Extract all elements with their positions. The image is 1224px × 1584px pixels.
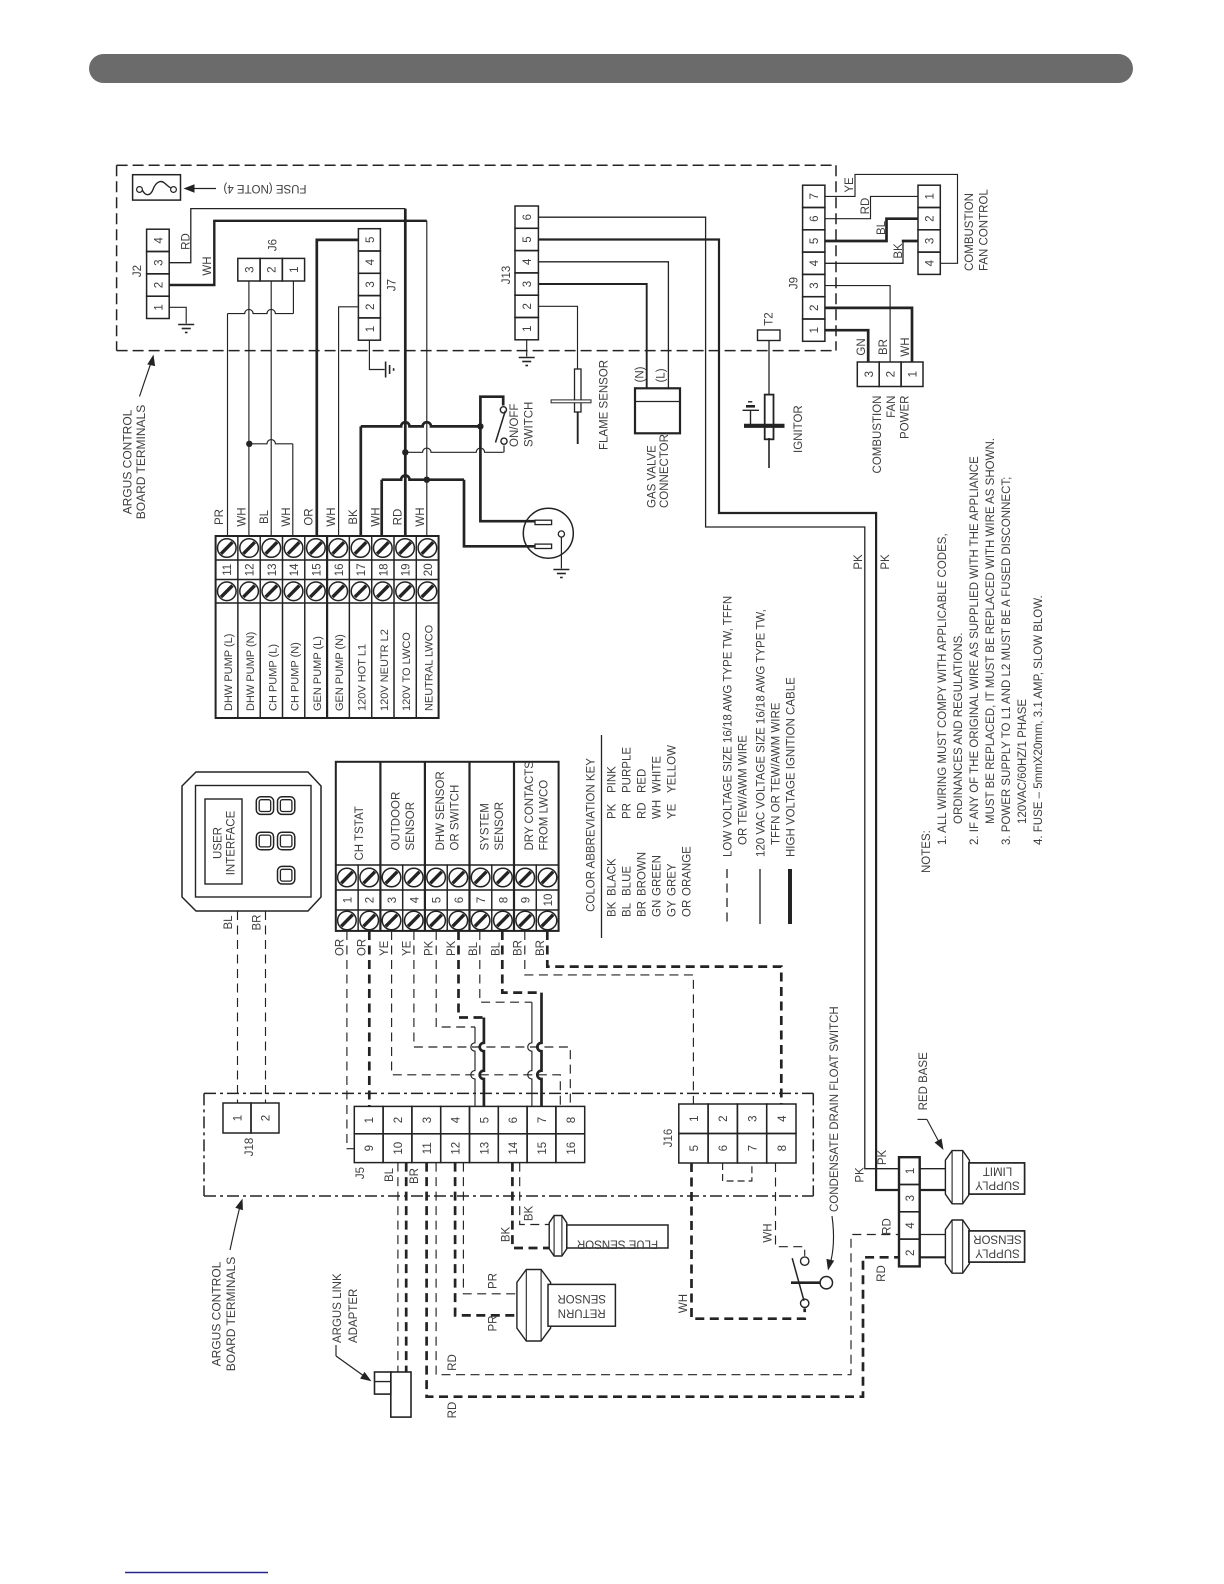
svg-text:1: 1 xyxy=(522,325,534,331)
wire J2.2 WH xyxy=(169,221,427,285)
svg-text:BROWN: BROWN xyxy=(637,852,649,896)
svg-text:6: 6 xyxy=(522,214,534,220)
svg-text:7: 7 xyxy=(537,1117,549,1123)
svg-text:RD: RD xyxy=(860,198,872,215)
wire J13.3 to gas valve (N) xyxy=(538,284,646,388)
svg-text:GY: GY xyxy=(667,900,679,917)
svg-text:T2: T2 xyxy=(764,312,776,325)
svg-text:RD: RD xyxy=(876,1265,888,1282)
supply sensor xyxy=(945,1220,969,1273)
wire UI BR to J18.2 xyxy=(265,911,267,1103)
connector J13 xyxy=(515,206,538,228)
svg-text:120V TO LWCO: 120V TO LWCO xyxy=(401,632,413,711)
svg-text:17: 17 xyxy=(356,563,368,576)
ignitor tip wire xyxy=(768,438,770,468)
wire J7.1 to ground xyxy=(369,340,384,369)
svg-text:3. POWER SUPPLY TO L1 AND L2: 3. POWER SUPPLY TO L1 AND L2 MUST BE A F… xyxy=(1001,477,1013,845)
wire terminal 17 BK to on/off switch feed xyxy=(359,426,362,536)
color key underline xyxy=(601,735,603,938)
footer link line xyxy=(125,1572,268,1574)
connector J5 xyxy=(354,1106,383,1133)
svg-text:3: 3 xyxy=(925,238,937,244)
svg-text:6: 6 xyxy=(718,1145,730,1151)
svg-text:BK: BK xyxy=(348,509,360,525)
ignitor electrode body xyxy=(765,395,774,440)
condensate float switch arm xyxy=(791,1281,820,1284)
plug ground symbol xyxy=(553,569,569,571)
supply sensor label box xyxy=(969,1231,1025,1262)
wire red base pin 2 to supply sensor xyxy=(920,1256,946,1258)
svg-text:OR: OR xyxy=(682,900,694,917)
svg-text:SENSOR: SENSOR xyxy=(405,802,417,851)
svg-text:ARGUS LINK: ARGUS LINK xyxy=(332,1273,344,1343)
svg-text:2: 2 xyxy=(153,282,165,288)
wire T2 to ignitor xyxy=(768,341,770,396)
svg-text:PK: PK xyxy=(424,940,436,956)
flue sensor xyxy=(549,1216,567,1257)
svg-text:2. IF ANY OF THE ORIGINAL WIR: 2. IF ANY OF THE ORIGINAL WIRE AS SUPPLI… xyxy=(969,456,981,845)
svg-text:13: 13 xyxy=(267,563,279,576)
svg-text:5: 5 xyxy=(365,237,377,243)
svg-text:4: 4 xyxy=(905,1222,917,1229)
svg-text:BK: BK xyxy=(524,1206,536,1222)
argus link adapter xyxy=(391,1372,411,1417)
ignitor spark gap electrode xyxy=(750,410,752,426)
svg-text:COLOR ABBREVIATION KEY: COLOR ABBREVIATION KEY xyxy=(586,758,598,912)
svg-text:PK: PK xyxy=(607,803,619,819)
svg-text:2: 2 xyxy=(267,266,279,272)
svg-text:BLUE: BLUE xyxy=(622,866,634,896)
wire J6.3 to terminal 12 (WH) xyxy=(248,281,250,536)
svg-text:3: 3 xyxy=(522,281,534,287)
svg-text:ON/OFF: ON/OFF xyxy=(509,404,521,447)
svg-text:3: 3 xyxy=(905,1195,917,1201)
wire J16.8 WH to float switch top xyxy=(776,1163,805,1256)
svg-text:J16: J16 xyxy=(663,1129,675,1148)
svg-text:5: 5 xyxy=(479,1117,491,1123)
svg-text:CONNECTOR: CONNECTOR xyxy=(659,434,671,508)
svg-text:BK: BK xyxy=(607,901,619,917)
svg-text:SENSOR: SENSOR xyxy=(494,802,506,851)
svg-text:PK: PK xyxy=(877,1150,889,1166)
svg-text:BR: BR xyxy=(637,901,649,917)
on/off switch xyxy=(480,397,503,427)
svg-text:19: 19 xyxy=(401,563,413,576)
svg-text:J18: J18 xyxy=(244,1138,256,1157)
svg-text:FLAME SENSOR: FLAME SENSOR xyxy=(599,360,611,450)
wire J5.10 BR to argus link adapter (offset) xyxy=(405,1163,408,1372)
svg-text:BK: BK xyxy=(893,243,905,259)
svg-text:SYSTEM: SYSTEM xyxy=(480,803,492,850)
svg-text:J6: J6 xyxy=(268,239,280,251)
wire J5.11 RD to red base pin 2 xyxy=(427,1163,899,1397)
svg-text:1: 1 xyxy=(905,1168,917,1174)
flame sensor body xyxy=(575,369,582,412)
svg-text:1: 1 xyxy=(689,1115,701,1121)
wire red base pin 1 to supply limit xyxy=(920,1168,946,1170)
svg-text:ORANGE: ORANGE xyxy=(682,846,694,896)
svg-text:J2: J2 xyxy=(132,265,144,277)
svg-text:1: 1 xyxy=(233,1115,245,1121)
svg-text:WH: WH xyxy=(415,507,427,526)
svg-text:GN: GN xyxy=(856,338,868,355)
wire J13.6 PK long run to supply limit pin 1 xyxy=(538,217,899,1168)
svg-text:2: 2 xyxy=(365,897,377,903)
svg-text:RD: RD xyxy=(393,509,405,526)
svg-text:TFFN OR TEW/AWM WIRE: TFFN OR TEW/AWM WIRE xyxy=(771,702,783,845)
svg-text:PR: PR xyxy=(488,1316,500,1332)
junction dot term20 neutral xyxy=(424,477,430,483)
wire J9.7 YE to fan control pin 4 xyxy=(825,174,958,263)
wire terminal 7 BL drop to J5.7 (offset) xyxy=(528,1002,532,1106)
svg-text:2: 2 xyxy=(809,305,821,311)
wire J2.3 RD xyxy=(169,209,405,263)
wire terminal 19 RD riser (from J2.3) xyxy=(404,209,407,536)
svg-text:IGNITOR: IGNITOR xyxy=(793,405,805,453)
svg-text:SENSOR: SENSOR xyxy=(557,1292,606,1304)
legend solid wire sample xyxy=(759,869,761,924)
svg-text:3: 3 xyxy=(244,266,256,272)
svg-text:CH TSTAT: CH TSTAT xyxy=(354,806,366,860)
svg-text:DHW SENSOR: DHW SENSOR xyxy=(435,771,447,850)
wire J6.2 to terminal 13 (BL) xyxy=(270,281,272,536)
junction dot term19/switch return xyxy=(402,449,408,455)
wire terminal 5 PK drop to J5.5 (offset) xyxy=(471,1027,475,1106)
svg-text:5: 5 xyxy=(522,236,534,242)
svg-text:COMBUSTION: COMBUSTION xyxy=(964,193,976,271)
supply limit label box xyxy=(969,1163,1025,1194)
ground at J2.1 xyxy=(178,324,194,326)
svg-text:YE: YE xyxy=(844,177,856,193)
terminal screws bottom row 1-10 xyxy=(338,911,357,930)
svg-text:RD: RD xyxy=(882,1218,894,1235)
svg-text:LIMIT: LIMIT xyxy=(983,1165,1012,1177)
transformer T2 xyxy=(758,330,781,341)
svg-text:120VAC/60HZ/1 PHASE: 120VAC/60HZ/1 PHASE xyxy=(1017,699,1029,824)
svg-text:PINK: PINK xyxy=(607,766,619,793)
legend thick wire sample xyxy=(788,869,792,924)
svg-text:J13: J13 xyxy=(501,266,513,285)
svg-text:6: 6 xyxy=(809,215,821,221)
svg-text:RED BASE: RED BASE xyxy=(918,1052,930,1110)
svg-text:RD: RD xyxy=(181,233,193,250)
leader arrow to red base xyxy=(918,1118,927,1120)
svg-text:INTERFACE: INTERFACE xyxy=(226,810,238,875)
dashed enclosure: argus control board terminals (top) xyxy=(117,164,836,166)
svg-text:BLACK: BLACK xyxy=(607,858,619,896)
connector J16 xyxy=(679,1104,708,1134)
svg-text:4: 4 xyxy=(522,258,534,265)
svg-text:BR: BR xyxy=(409,1168,421,1184)
svg-text:3: 3 xyxy=(422,1117,434,1123)
svg-text:5: 5 xyxy=(689,1145,701,1151)
svg-text:BR: BR xyxy=(535,940,547,956)
wire terminal 4 YE to J5.8 xyxy=(414,931,570,1106)
svg-text:8: 8 xyxy=(566,1117,578,1123)
wire terminal 3 YE to J5.8 (offset) xyxy=(392,931,561,1106)
svg-text:PR: PR xyxy=(488,1273,500,1289)
svg-text:FAN: FAN xyxy=(886,396,898,418)
svg-text:3: 3 xyxy=(809,282,821,288)
wire J9.1 GN to fan power 3 xyxy=(825,330,868,362)
wire J5.13 BK to flue sensor (offset) xyxy=(520,1163,550,1225)
svg-text:12: 12 xyxy=(245,563,257,576)
svg-text:120 VAC VOLTAGE SIZE 16/18 AWG: 120 VAC VOLTAGE SIZE 16/18 AWG TYPE TW, xyxy=(756,609,768,857)
svg-text:WH: WH xyxy=(202,256,214,275)
svg-text:WH: WH xyxy=(678,1294,690,1313)
svg-text:BR: BR xyxy=(252,915,264,931)
wire terminal 20 WH riser (from J2.2) xyxy=(426,221,428,536)
terminal screws top row 11-20 xyxy=(218,539,237,558)
svg-text:GN: GN xyxy=(652,900,664,917)
fuse note arrow xyxy=(184,184,195,192)
svg-text:NOTES:: NOTES: xyxy=(921,830,933,873)
legend dashed wire sample xyxy=(726,869,728,924)
svg-text:1: 1 xyxy=(365,326,377,332)
svg-text:10: 10 xyxy=(393,1142,405,1155)
wire J13.5 PK long run to supply limit pin 3 xyxy=(538,240,899,1191)
jumper J16.6-J16.7 xyxy=(723,1163,752,1181)
condensate float switch contacts xyxy=(801,1257,809,1265)
svg-text:BL: BL xyxy=(259,509,271,524)
svg-text:BL: BL xyxy=(384,1167,396,1182)
svg-text:BR: BR xyxy=(878,339,890,355)
svg-text:3: 3 xyxy=(153,259,165,265)
svg-text:COMBUSTION: COMBUSTION xyxy=(872,396,884,474)
wire J2.1 to ground xyxy=(169,307,186,323)
connector: red base xyxy=(899,1157,920,1184)
svg-text:FROM LWCO: FROM LWCO xyxy=(539,780,551,851)
terminal screws bottom row 11-20 xyxy=(218,582,237,601)
svg-text:OR: OR xyxy=(357,939,369,956)
wire terminal 6 PK drop to J5.5 xyxy=(480,1018,484,1107)
svg-text:1: 1 xyxy=(925,193,937,199)
supply limit sensor xyxy=(945,1151,969,1204)
connector J2 xyxy=(147,229,170,251)
svg-text:1: 1 xyxy=(342,897,354,903)
svg-text:PK: PK xyxy=(855,1167,867,1183)
svg-text:7: 7 xyxy=(748,1145,760,1151)
svg-text:3: 3 xyxy=(387,897,399,903)
wire terminal 1 OR to J5.9 xyxy=(347,931,354,1149)
svg-text:RETURN: RETURN xyxy=(558,1307,606,1319)
svg-text:BOARD TERMINALS: BOARD TERMINALS xyxy=(134,405,148,519)
svg-text:120V NEUTR L2: 120V NEUTR L2 xyxy=(379,629,391,711)
svg-text:ORDINANCES AND REGULATIONS.: ORDINANCES AND REGULATIONS. xyxy=(953,633,965,825)
wire J7.5 to terminal 15 (OR) xyxy=(317,240,359,536)
svg-text:7: 7 xyxy=(809,193,821,199)
svg-text:4: 4 xyxy=(409,896,421,903)
svg-text:11: 11 xyxy=(422,1142,434,1154)
connector: combustion fan power xyxy=(857,362,879,387)
ground at J13.1 xyxy=(519,357,535,359)
svg-text:(L): (L) xyxy=(656,368,668,382)
svg-text:SUPPLY: SUPPLY xyxy=(975,1179,1020,1191)
svg-text:FUSE (NOTE 4): FUSE (NOTE 4) xyxy=(223,182,306,194)
wire J9.2 WH to fan power 1 xyxy=(825,308,912,362)
wire J9.6 RD to fan control pin 1 xyxy=(825,196,918,218)
wire terminal 8 BL drop to J5.7 xyxy=(537,993,541,1107)
svg-text:PK: PK xyxy=(446,940,458,956)
svg-text:2: 2 xyxy=(905,1250,917,1256)
svg-text:YE: YE xyxy=(379,940,391,956)
svg-text:BK: BK xyxy=(501,1227,513,1243)
svg-text:OUTDOOR: OUTDOOR xyxy=(390,792,402,851)
connector J18 xyxy=(223,1103,251,1133)
wire J5.11 RD to red base pin 4 (offset) xyxy=(436,1163,899,1375)
flame sensor rod xyxy=(577,412,579,444)
svg-text:5: 5 xyxy=(809,238,821,244)
wire terminal 7 BL jog xyxy=(480,931,532,1002)
svg-text:SWITCH: SWITCH xyxy=(524,402,536,447)
svg-text:GREY: GREY xyxy=(667,863,679,896)
connector J6 xyxy=(238,258,260,281)
svg-text:YELLOW: YELLOW xyxy=(667,745,679,793)
leader arrow to argus link adapter xyxy=(335,1345,337,1356)
svg-text:4: 4 xyxy=(777,1115,789,1122)
svg-text:ARGUS CONTROL: ARGUS CONTROL xyxy=(210,1261,224,1366)
svg-text:14: 14 xyxy=(508,1141,520,1154)
svg-text:4. FUSE – 5mmX20mm, 3.1 AMP,: 4. FUSE – 5mmX20mm, 3.1 AMP, SLOW BLOW. xyxy=(1033,595,1045,845)
svg-text:SENSOR: SENSOR xyxy=(973,1233,1022,1245)
svg-text:4: 4 xyxy=(451,1116,463,1123)
wire switch hot to plug xyxy=(480,426,535,521)
svg-text:18: 18 xyxy=(378,563,390,576)
svg-text:GAS VALVE: GAS VALVE xyxy=(647,445,659,508)
gas valve connector box xyxy=(635,388,680,433)
svg-text:2: 2 xyxy=(886,371,898,377)
leader arrow to top dashed box xyxy=(140,360,153,397)
terminal screws top row 1-10 xyxy=(338,868,357,887)
svg-text:1: 1 xyxy=(153,304,165,310)
svg-text:15: 15 xyxy=(311,563,323,576)
svg-text:OR SWITCH: OR SWITCH xyxy=(449,785,461,851)
svg-text:3: 3 xyxy=(365,281,377,287)
svg-text:BL: BL xyxy=(876,220,888,235)
svg-text:2: 2 xyxy=(718,1115,730,1121)
svg-text:WH: WH xyxy=(281,507,293,526)
svg-text:POWER: POWER xyxy=(900,396,912,439)
ignitor mounting bar xyxy=(744,424,785,428)
svg-text:20: 20 xyxy=(423,563,435,576)
svg-text:OR TEW/AWM WIRE: OR TEW/AWM WIRE xyxy=(738,735,750,845)
svg-text:7: 7 xyxy=(476,897,488,903)
svg-text:RD: RD xyxy=(637,802,649,819)
svg-text:CH PUMP (N): CH PUMP (N) xyxy=(290,642,302,711)
wire J5.12 PR to return sensor (offset) xyxy=(463,1163,517,1294)
svg-text:ADAPTER: ADAPTER xyxy=(348,1289,360,1343)
wire J5.13 BK to flue sensor xyxy=(512,1163,549,1248)
svg-text:6: 6 xyxy=(454,897,466,903)
connector: combustion fan control xyxy=(918,185,940,207)
junction dot switch feed xyxy=(477,423,483,429)
wire UI BL to J18.1 xyxy=(237,911,239,1103)
svg-text:1: 1 xyxy=(908,371,920,377)
svg-text:GREEN: GREEN xyxy=(652,855,664,896)
svg-text:2: 2 xyxy=(522,303,534,309)
condensate float ball xyxy=(820,1277,832,1289)
svg-text:2: 2 xyxy=(925,215,937,221)
svg-text:9: 9 xyxy=(521,897,533,903)
wire J16.5 WH to float switch bottom xyxy=(692,1163,805,1319)
svg-text:DHW PUMP (L): DHW PUMP (L) xyxy=(223,634,235,711)
svg-text:J9: J9 xyxy=(789,277,801,289)
fuse F1 xyxy=(133,175,181,200)
svg-text:120V HOT L1: 120V HOT L1 xyxy=(357,644,369,711)
svg-text:BL: BL xyxy=(490,941,502,956)
wire terminal 9 BR to J16.1 xyxy=(525,931,694,1104)
ground at J7.1 xyxy=(385,362,387,378)
svg-text:2: 2 xyxy=(393,1117,405,1123)
wire on/off switch return xyxy=(405,448,503,452)
terminal strip 1-10 xyxy=(336,762,559,931)
svg-text:LOW VOLTAGE SIZE 16/18 AWG TYP: LOW VOLTAGE SIZE 16/18 AWG TYPE TW, TFFN xyxy=(723,596,735,857)
svg-text:YE: YE xyxy=(667,803,679,819)
wire terminal 18 WH neutral to plug xyxy=(380,480,383,536)
svg-text:PURPLE: PURPLE xyxy=(622,747,634,793)
svg-text:12: 12 xyxy=(451,1142,463,1155)
return sensor label box xyxy=(548,1284,615,1326)
wire J13.4 to gas valve (L) xyxy=(538,262,668,388)
svg-text:15: 15 xyxy=(537,1142,549,1155)
svg-text:9: 9 xyxy=(364,1145,376,1151)
svg-text:MUST BE REPLACED, IT MUST BE R: MUST BE REPLACED, IT MUST BE REPLACED WI… xyxy=(985,438,997,824)
svg-text:1: 1 xyxy=(364,1117,376,1123)
junction dot J6.3/term14 xyxy=(246,441,252,447)
svg-text:14: 14 xyxy=(289,563,301,576)
return sensor xyxy=(517,1270,551,1342)
svg-text:16: 16 xyxy=(566,1142,578,1155)
svg-text:CONDENSATE DRAIN FLOAT SWITCH: CONDENSATE DRAIN FLOAT SWITCH xyxy=(829,1006,841,1212)
svg-text:6: 6 xyxy=(508,1117,520,1123)
wire J13.2 to flame sensor xyxy=(538,306,577,369)
svg-text:DRY CONTACTS: DRY CONTACTS xyxy=(524,761,536,851)
svg-text:8: 8 xyxy=(777,1145,789,1151)
svg-text:OR: OR xyxy=(334,939,346,956)
svg-text:5: 5 xyxy=(432,897,444,903)
wire terminal 14 (WH) join xyxy=(249,440,292,444)
wire terminal 6 PK jog xyxy=(459,931,484,1018)
leader arrow to float switch xyxy=(830,1216,834,1266)
wire terminal 5 PK jog xyxy=(436,931,475,1027)
wire red base pin 4 to supply sensor xyxy=(920,1234,946,1236)
connector J7 xyxy=(358,229,380,251)
svg-text:13: 13 xyxy=(479,1142,491,1155)
svg-text:1: 1 xyxy=(289,266,301,272)
leader arrow to bottom dashed box xyxy=(230,1202,241,1250)
svg-text:YE: YE xyxy=(401,940,413,956)
svg-text:RD: RD xyxy=(447,1402,459,1419)
wire J13.1 to ground xyxy=(526,340,528,357)
svg-text:J7: J7 xyxy=(387,279,399,291)
svg-text:RED: RED xyxy=(637,769,649,793)
wire J9.4 BK to fan control pin 3 xyxy=(825,241,903,263)
condensate float switch blade xyxy=(792,1258,804,1301)
svg-text:RD: RD xyxy=(447,1354,459,1371)
svg-text:BL: BL xyxy=(622,902,634,917)
svg-text:8: 8 xyxy=(498,897,510,903)
svg-text:1. ALL WIRING MUST COMPY WITH: 1. ALL WIRING MUST COMPY WITH APPLICABLE… xyxy=(937,533,949,845)
svg-text:WH: WH xyxy=(652,800,664,819)
svg-text:10: 10 xyxy=(543,894,555,907)
wire J7.2 to terminal 16 (WH) xyxy=(339,307,359,536)
svg-text:GEN PUMP (N): GEN PUMP (N) xyxy=(334,634,346,711)
svg-text:4: 4 xyxy=(365,258,377,265)
svg-text:NEUTRAL LWCO: NEUTRAL LWCO xyxy=(423,624,435,711)
terminal strip 11-20 xyxy=(216,536,439,718)
svg-text:J5: J5 xyxy=(355,1167,367,1179)
user interface bezel xyxy=(182,772,321,911)
